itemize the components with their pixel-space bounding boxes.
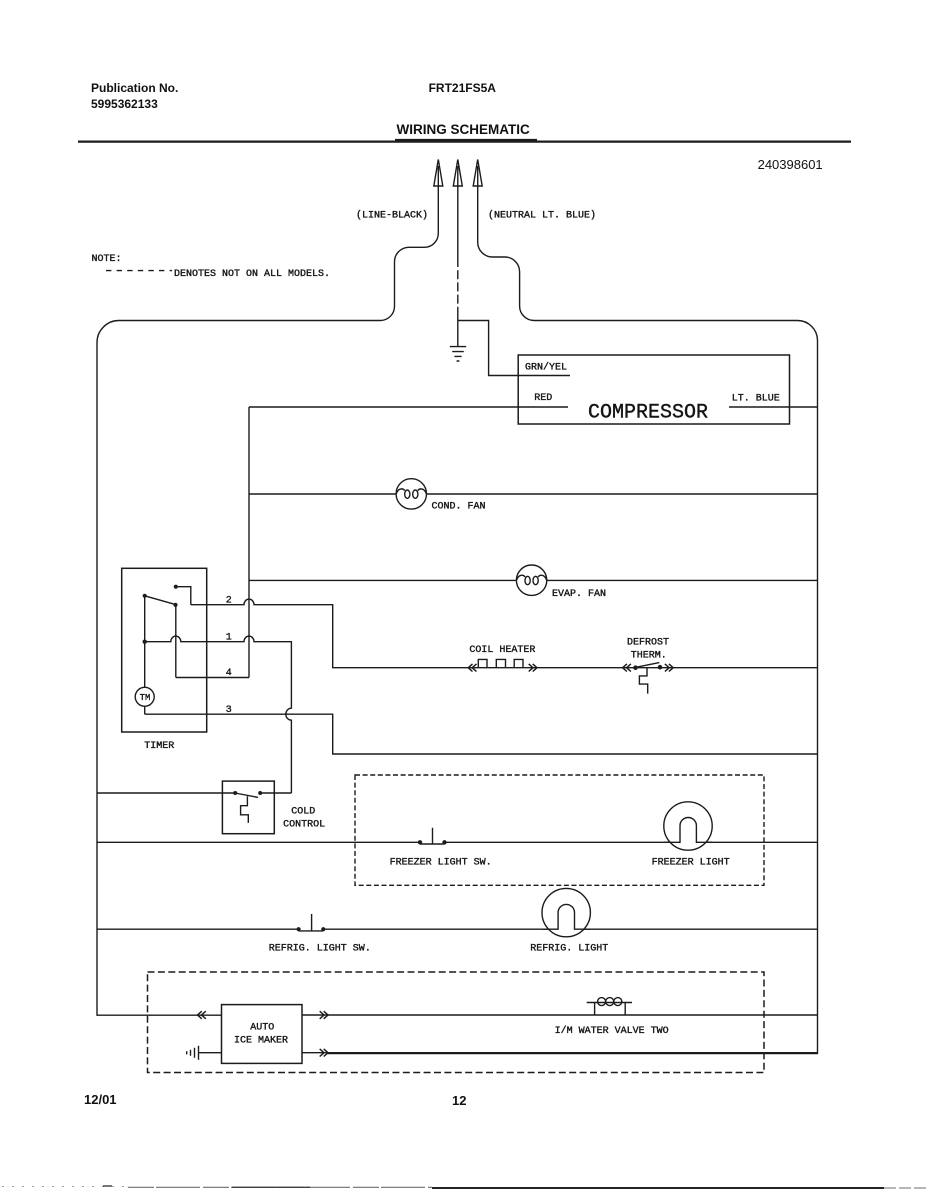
svg-text:COMPRESSOR: COMPRESSOR [588,402,708,425]
svg-text:COIL HEATER: COIL HEATER [469,645,535,656]
svg-text:EVAP. FAN: EVAP. FAN [552,589,606,600]
svg-text:I/M WATER VALVE TWO: I/M WATER VALVE TWO [555,1025,669,1037]
svg-text:TM: TM [140,693,151,703]
svg-text:REFRIG. LIGHT: REFRIG. LIGHT [530,944,608,955]
svg-text:COLD: COLD [291,807,315,818]
svg-text:DENOTES NOT ON ALL MODELS.: DENOTES NOT ON ALL MODELS. [174,269,330,280]
svg-text:REFRIG. LIGHT SW.: REFRIG. LIGHT SW. [269,944,371,955]
svg-text:GRN/YEL: GRN/YEL [525,362,567,374]
svg-text:COND. FAN: COND. FAN [432,502,486,513]
svg-text:ICE MAKER: ICE MAKER [234,1036,288,1047]
svg-text:RED: RED [534,393,552,404]
svg-text:WIRING SCHEMATIC: WIRING SCHEMATIC [397,122,530,137]
svg-text:AUTO: AUTO [250,1023,274,1034]
svg-text:(LINE-BLACK): (LINE-BLACK) [356,210,428,222]
svg-text:FRT21FS5A: FRT21FS5A [429,81,497,95]
svg-text:2: 2 [226,596,232,607]
svg-text:3: 3 [226,705,232,716]
svg-text:FREEZER LIGHT: FREEZER LIGHT [652,858,730,869]
svg-text:5995362133: 5995362133 [91,97,158,111]
svg-text:12: 12 [452,1093,466,1108]
svg-text:(NEUTRAL LT. BLUE): (NEUTRAL LT. BLUE) [488,210,596,222]
svg-text:TIMER: TIMER [144,741,174,752]
svg-text:Publication No.: Publication No. [91,81,178,95]
svg-text:NOTE:: NOTE: [92,254,122,265]
svg-text:THERM.: THERM. [631,651,667,662]
svg-text:4: 4 [226,668,232,679]
svg-text:DEFROST: DEFROST [627,638,669,649]
svg-text:FREEZER LIGHT SW.: FREEZER LIGHT SW. [390,858,492,869]
svg-text:CONTROL: CONTROL [283,820,325,831]
svg-text:240398601: 240398601 [758,157,823,172]
svg-text:LT. BLUE: LT. BLUE [732,394,780,405]
svg-text:1: 1 [226,632,232,643]
svg-text:12/01: 12/01 [84,1092,117,1107]
